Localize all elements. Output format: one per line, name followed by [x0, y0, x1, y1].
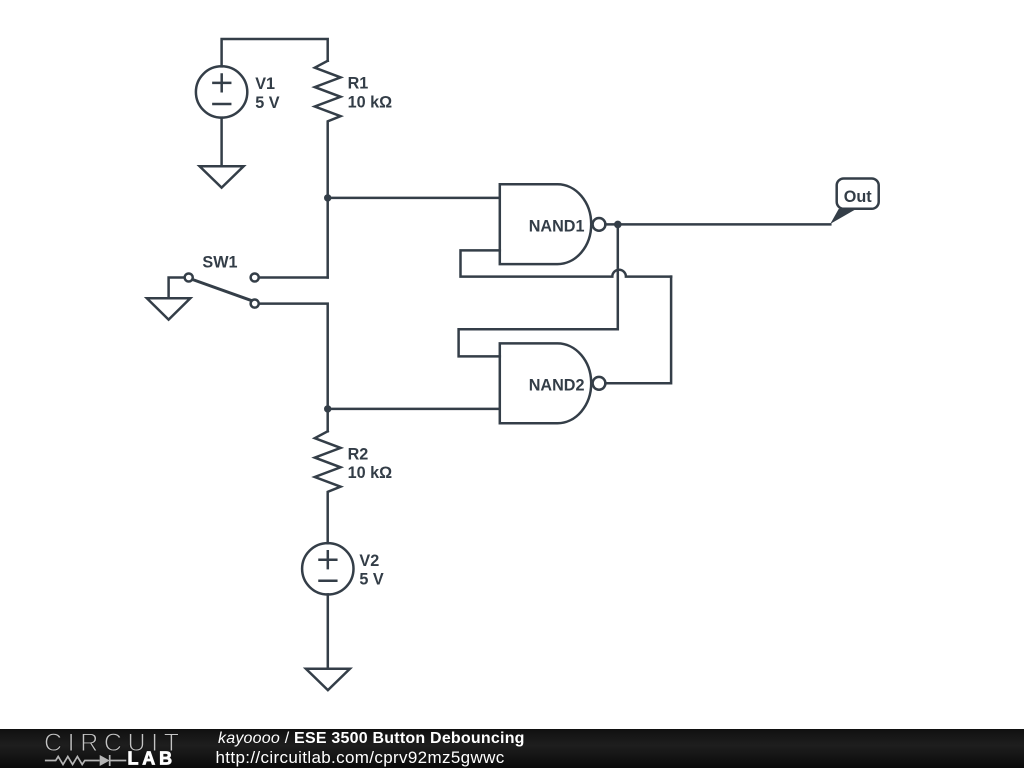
svg-text:R1: R1	[348, 75, 369, 93]
svg-text:Out: Out	[844, 188, 872, 206]
svg-text:LAB: LAB	[128, 749, 176, 768]
svg-text:NAND2: NAND2	[529, 376, 585, 394]
svg-text:5 V: 5 V	[359, 571, 384, 589]
svg-text:SW1: SW1	[202, 254, 237, 272]
svg-text:R2: R2	[348, 445, 369, 463]
svg-text:10 kΩ: 10 kΩ	[348, 464, 393, 482]
svg-text:10 kΩ: 10 kΩ	[348, 94, 393, 112]
svg-text:V2: V2	[359, 552, 379, 570]
svg-text:V1: V1	[255, 75, 275, 93]
svg-text:5 V: 5 V	[255, 94, 280, 112]
svg-text:NAND1: NAND1	[529, 218, 585, 236]
